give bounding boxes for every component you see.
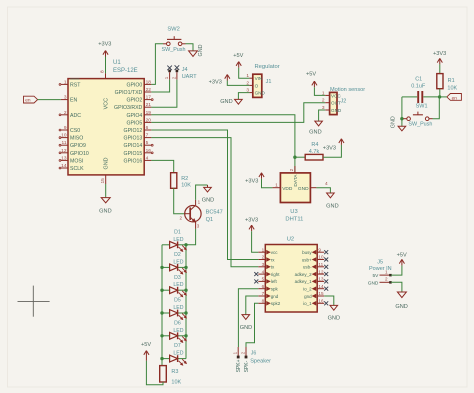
wire +3V3 to J1 pin 2 bbox=[227, 81, 249, 86]
svg-text:R3: R3 bbox=[171, 369, 178, 375]
svg-text:ESP-12E: ESP-12E bbox=[113, 68, 138, 74]
no-connect X on J4 pin 3 bbox=[167, 66, 172, 71]
wire en node to label bbox=[440, 96, 447, 98]
svg-text:GPIO5: GPIO5 bbox=[126, 120, 142, 126]
wire U2 spk to speaker bbox=[238, 289, 258, 347]
pin 12 GPIO10 of U1 bbox=[59, 148, 89, 157]
svg-text:+5V: +5V bbox=[141, 342, 151, 348]
power +5V at J1 bbox=[233, 53, 243, 67]
power +5V at J2 bbox=[306, 71, 317, 87]
svg-text:Motion sensor: Motion sensor bbox=[330, 87, 365, 93]
svg-text:adkey_2: adkey_2 bbox=[295, 272, 313, 277]
svg-text:R1: R1 bbox=[448, 78, 455, 84]
svg-text:10: 10 bbox=[61, 133, 67, 139]
pin 3 tx of U2 bbox=[258, 262, 275, 270]
pin 6 GPIO12 of U1 bbox=[124, 125, 152, 134]
U1 reference label bbox=[113, 60, 138, 74]
junction right bus at D2 bbox=[184, 266, 187, 269]
no-connect X on J4 pin 4 bbox=[175, 65, 180, 70]
wire U2 spk2 to speaker bbox=[246, 303, 258, 347]
pin 16 io_1 of U2 bbox=[303, 299, 324, 307]
svg-text:GPIO14: GPIO14 bbox=[124, 143, 143, 149]
svg-text:J5: J5 bbox=[377, 259, 383, 265]
svg-text:R4: R4 bbox=[311, 142, 318, 148]
svg-text:DHT11: DHT11 bbox=[285, 217, 303, 223]
svg-text:4: 4 bbox=[262, 269, 265, 274]
pin 13 adkey_1 of U2 bbox=[295, 277, 325, 285]
svg-text:17: 17 bbox=[146, 95, 152, 101]
svg-text:LED: LED bbox=[173, 351, 183, 357]
svg-text:GND: GND bbox=[198, 44, 204, 56]
wire J1 pin 3 to ground bbox=[238, 93, 249, 100]
svg-text:EN: EN bbox=[70, 98, 77, 104]
wire +3V3 to R1 bbox=[439, 64, 441, 73]
junction left bus at D2 bbox=[160, 266, 163, 269]
LED D5 bbox=[162, 298, 186, 320]
wire +5V to J2 pin 1 bbox=[314, 87, 325, 95]
junction right bus at D5 bbox=[184, 311, 187, 314]
pin 3 EN of U1 bbox=[61, 95, 78, 104]
no-connect X on U2 pin 10 bbox=[324, 258, 328, 262]
svg-text:spk: spk bbox=[271, 287, 279, 292]
svg-text:spk2: spk2 bbox=[271, 301, 281, 306]
wire R2 to Q1 base bbox=[174, 188, 185, 213]
svg-text:14: 14 bbox=[61, 163, 67, 169]
svg-text:5V: 5V bbox=[373, 273, 380, 279]
svg-text:11: 11 bbox=[318, 262, 323, 267]
svg-text:GPIO9: GPIO9 bbox=[70, 143, 86, 149]
wire J5 5V to +5V bbox=[391, 265, 402, 275]
pin 15 gnd of U2 bbox=[304, 291, 324, 299]
power +3V3 at R4 bbox=[323, 139, 344, 152]
resistor R2 bbox=[171, 173, 192, 189]
pin 1 5V of J5 bbox=[373, 269, 392, 279]
pin 7 GPIO13 of U1 bbox=[124, 133, 152, 142]
power +5V at J5 bbox=[397, 252, 407, 265]
pin 5 left of U2 bbox=[258, 277, 277, 285]
wire en label to EN pin bbox=[38, 99, 61, 101]
wire C1 left bbox=[402, 96, 417, 98]
svg-text:5: 5 bbox=[262, 277, 265, 282]
svg-text:1: 1 bbox=[262, 247, 265, 252]
pin 3 GND of J2 bbox=[322, 105, 342, 113]
ground at U2 gnd left bbox=[240, 315, 252, 332]
svg-text:R2: R2 bbox=[181, 176, 188, 182]
svg-text:Q1: Q1 bbox=[206, 217, 213, 223]
pin 19 GPIO4 of U1 bbox=[126, 110, 151, 119]
ground at J5 bbox=[395, 292, 407, 310]
svg-text:MOSI: MOSI bbox=[70, 158, 83, 164]
resistor R3 bbox=[160, 366, 182, 386]
wire SW2 right to ground bbox=[186, 44, 194, 51]
global label en at R1 bbox=[447, 94, 462, 102]
no-connect X on U2 pin 11 bbox=[324, 265, 328, 269]
switch SW1 SW_Push bbox=[403, 104, 432, 128]
svg-text:GND: GND bbox=[255, 91, 266, 96]
svg-text:MISO: MISO bbox=[70, 136, 83, 142]
svg-text:1: 1 bbox=[233, 351, 238, 354]
svg-text:GND: GND bbox=[99, 209, 111, 215]
svg-text:10K: 10K bbox=[447, 85, 457, 91]
svg-text:GND: GND bbox=[395, 304, 407, 310]
svg-text:GPIO15: GPIO15 bbox=[124, 151, 143, 157]
wire J4 pin2 to GPIO3/RXD bbox=[151, 80, 177, 108]
svg-text:GPIO3/RXD: GPIO3/RXD bbox=[114, 105, 143, 111]
sensor U3 DHT11 body bbox=[280, 173, 310, 223]
svg-text:ADC: ADC bbox=[70, 113, 81, 119]
svg-text:Regulator: Regulator bbox=[255, 64, 280, 70]
svg-text:U1: U1 bbox=[113, 60, 121, 66]
svg-text:3: 3 bbox=[262, 262, 265, 267]
svg-text:J2: J2 bbox=[341, 98, 347, 104]
svg-text:9: 9 bbox=[64, 125, 67, 131]
pin 10 usb+ of U2 bbox=[302, 255, 324, 263]
wire J2 OUT to GPIO5 bbox=[151, 103, 325, 123]
power +3V3 at J1 pin 2 bbox=[209, 75, 230, 86]
svg-text:GND: GND bbox=[240, 325, 252, 331]
pin 2 of J1 bbox=[246, 80, 258, 88]
svg-text:1: 1 bbox=[246, 73, 249, 79]
svg-text:15: 15 bbox=[318, 291, 324, 296]
svg-text:GND: GND bbox=[368, 281, 379, 287]
svg-text:en: en bbox=[25, 99, 31, 104]
svg-text:vcc: vcc bbox=[271, 250, 279, 255]
svg-text:U2: U2 bbox=[287, 236, 294, 242]
wire SW2 left to GPIO0 bbox=[151, 44, 163, 85]
svg-text:LED: LED bbox=[173, 237, 183, 243]
svg-text:2: 2 bbox=[171, 76, 176, 79]
svg-text:8: 8 bbox=[100, 70, 106, 73]
pin 1 VCC of J2 bbox=[322, 90, 341, 98]
svg-text:D1: D1 bbox=[174, 229, 181, 235]
svg-text:GND: GND bbox=[104, 157, 110, 169]
power +3V3 at U2 vcc bbox=[245, 217, 258, 231]
wire U1 pin15 to ground bbox=[105, 184, 107, 197]
wire Q1 collector to ground bbox=[196, 185, 208, 200]
node DATA junction bbox=[293, 156, 296, 159]
pin 2 ADC of U1 bbox=[59, 110, 81, 119]
svg-text:GPIO10: GPIO10 bbox=[70, 151, 89, 157]
pin 13 MOSI of U1 bbox=[59, 155, 83, 164]
pin 22 GPIO1/TXD of U1 bbox=[115, 87, 152, 96]
svg-text:12: 12 bbox=[61, 148, 67, 154]
svg-text:7: 7 bbox=[146, 133, 149, 139]
svg-text:DATA: DATA bbox=[293, 174, 299, 187]
svg-text:SW2: SW2 bbox=[167, 26, 180, 32]
svg-text:12: 12 bbox=[318, 269, 324, 274]
wire SW1 right to en node bbox=[433, 97, 440, 119]
svg-text:+3V3: +3V3 bbox=[323, 145, 336, 151]
svg-text:J4: J4 bbox=[182, 67, 188, 73]
wire +5V to J1 pin 1 bbox=[239, 68, 250, 79]
no-connect X on U2 pin 12 bbox=[324, 272, 328, 276]
pin 16 GPIO15 of U1 bbox=[124, 148, 154, 157]
svg-text:GND: GND bbox=[202, 198, 214, 204]
wire GPIO4 to DHT11 DATA node bbox=[151, 115, 295, 173]
svg-text:Power IN: Power IN bbox=[369, 266, 392, 272]
svg-text:GND: GND bbox=[298, 186, 309, 192]
svg-text:J1: J1 bbox=[266, 79, 272, 85]
svg-text:+3V3: +3V3 bbox=[245, 217, 258, 223]
pin 21 GPIO3/RXD of U1 bbox=[114, 102, 151, 111]
pin 15 GND of U1 bbox=[100, 157, 109, 184]
svg-text:1: 1 bbox=[385, 269, 388, 274]
svg-text:19: 19 bbox=[146, 110, 152, 116]
ground at J1 bbox=[220, 99, 242, 105]
connector J6 pin 1 SPK+ bbox=[233, 347, 243, 372]
pin 17 GPIO2 of U1 bbox=[126, 95, 153, 104]
switch SW2 SW_Push bbox=[162, 26, 186, 53]
svg-text:+5V: +5V bbox=[397, 252, 407, 258]
wire LED right bus bbox=[185, 245, 187, 359]
junction left bus at D7 bbox=[160, 357, 163, 360]
LED D1 bbox=[162, 229, 186, 251]
ground at Q1 collector bbox=[202, 185, 214, 204]
LED D3 bbox=[162, 275, 186, 297]
svg-text:D3: D3 bbox=[174, 275, 181, 281]
svg-text:OUT: OUT bbox=[331, 101, 341, 106]
svg-text:4: 4 bbox=[325, 181, 328, 187]
pin 9 CS0 of U1 bbox=[59, 125, 80, 134]
svg-text:io_1: io_1 bbox=[303, 301, 312, 306]
no-connect X on U2 pin 5 bbox=[254, 279, 258, 283]
svg-text:BC547: BC547 bbox=[206, 210, 223, 216]
svg-text:CS0: CS0 bbox=[70, 128, 80, 134]
J4 reference and value bbox=[182, 67, 198, 80]
op-amp U1 ESP-12E body bbox=[68, 79, 144, 175]
svg-text:RST: RST bbox=[70, 82, 81, 88]
svg-text:usb-: usb- bbox=[303, 265, 312, 270]
wire +3V3 to U3 VDD bbox=[262, 179, 273, 188]
svg-text:9: 9 bbox=[318, 247, 321, 252]
svg-text:GPIO4: GPIO4 bbox=[126, 113, 142, 119]
svg-text:right: right bbox=[271, 272, 281, 277]
LED D7 bbox=[162, 343, 186, 365]
pin 7 gnd of U2 bbox=[258, 291, 279, 299]
connector J5 Power IN bbox=[369, 259, 392, 272]
svg-text:1: 1 bbox=[322, 90, 325, 96]
connector J2 Motion sensor body bbox=[330, 87, 366, 114]
pin 3 GND of J1 bbox=[246, 88, 265, 96]
junction left bus at D6 bbox=[160, 334, 163, 337]
svg-text:GND: GND bbox=[220, 99, 232, 105]
wire R3 to +5V bbox=[146, 361, 163, 385]
svg-text:5: 5 bbox=[146, 140, 149, 146]
svg-text:21: 21 bbox=[146, 102, 152, 108]
capacitor C1 bbox=[411, 76, 426, 103]
LED D2 bbox=[162, 252, 186, 274]
svg-text:SW_Push: SW_Push bbox=[408, 121, 432, 127]
pin 14 SCLK of U1 bbox=[59, 163, 84, 172]
pin 20 GPIO5 of U1 bbox=[126, 117, 151, 126]
svg-text:20: 20 bbox=[146, 117, 152, 123]
svg-text:GND: GND bbox=[328, 316, 340, 322]
wire LED left bus bbox=[161, 245, 163, 366]
svg-text:2: 2 bbox=[385, 277, 388, 282]
svg-text:2: 2 bbox=[64, 110, 67, 116]
no-connect X on U2 pin 4 bbox=[254, 272, 258, 276]
pin 4 GPIO16 of U1 bbox=[124, 155, 152, 164]
pin 8 spk2 of U2 bbox=[258, 299, 281, 307]
pin 2 DATA of U3 bbox=[289, 166, 299, 187]
pin 1 VIN of J1 bbox=[246, 73, 262, 81]
wire J4 pin1 to GPIO1/TXD bbox=[151, 80, 169, 92]
svg-text:13: 13 bbox=[61, 155, 67, 161]
transistor Q1 BC547 bbox=[179, 199, 222, 229]
module U2 body bbox=[265, 236, 317, 312]
pin 2 rx of U2 bbox=[258, 255, 275, 263]
svg-text:LED: LED bbox=[173, 282, 183, 288]
svg-text:Speaker: Speaker bbox=[250, 359, 271, 365]
ground at J2 bbox=[309, 121, 322, 136]
no-connect X on U2 pin 9 bbox=[324, 250, 328, 254]
no-connect X on U2 pin 16 bbox=[324, 301, 328, 305]
junction left bus at D3 bbox=[160, 289, 163, 292]
svg-text:15: 15 bbox=[100, 178, 106, 184]
svg-text:+5V: +5V bbox=[306, 71, 316, 77]
pin 1 VDD of U3 bbox=[272, 182, 292, 191]
power +3V3 at R1 bbox=[433, 51, 446, 64]
pin 1 RST of U1 bbox=[59, 79, 81, 89]
ground at U3 bbox=[326, 193, 338, 210]
svg-text:+3V3: +3V3 bbox=[245, 178, 258, 184]
junction right bus at D1 bbox=[184, 243, 187, 246]
no-connect X on U2 pin 13 bbox=[324, 279, 328, 283]
svg-text:gnd: gnd bbox=[304, 294, 312, 299]
node en junction bbox=[438, 95, 441, 98]
svg-text:+3V3: +3V3 bbox=[98, 42, 111, 48]
ground at SW2 bbox=[189, 44, 204, 56]
wire VCC to U1 pin 8 bbox=[105, 57, 107, 74]
svg-text:busy: busy bbox=[302, 250, 312, 255]
svg-text:D5: D5 bbox=[174, 298, 181, 304]
junction right bus at D6 bbox=[184, 334, 187, 337]
svg-text:GPIO13: GPIO13 bbox=[124, 136, 143, 142]
pin 10 MISO of U1 bbox=[59, 133, 83, 142]
svg-text:VDD: VDD bbox=[282, 186, 293, 192]
svg-text:UART: UART bbox=[182, 74, 198, 80]
svg-text:gnd: gnd bbox=[271, 294, 279, 299]
resistor R4 bbox=[295, 142, 323, 160]
wire Q1 emitter to LED bus bbox=[186, 229, 196, 245]
wire C1 right to en node bbox=[423, 96, 440, 98]
svg-text:7: 7 bbox=[262, 291, 265, 296]
wire GPIO16 to R2 bbox=[151, 160, 173, 172]
global label en at U1 EN bbox=[24, 96, 38, 103]
svg-text:io_2: io_2 bbox=[303, 287, 312, 292]
svg-text:U3: U3 bbox=[290, 209, 297, 215]
connector J6 pin 2 SPK- bbox=[240, 347, 250, 372]
svg-text:1: 1 bbox=[275, 182, 278, 188]
svg-text:10: 10 bbox=[318, 255, 324, 260]
svg-text:+5V: +5V bbox=[233, 53, 243, 59]
wire U3 GND to ground bbox=[316, 188, 330, 193]
svg-text:GPIO0: GPIO0 bbox=[126, 82, 142, 88]
svg-text:4: 4 bbox=[146, 155, 149, 161]
wire +3V3 to U2 pin 1 bbox=[252, 231, 259, 252]
power +5V at R3 bbox=[141, 342, 151, 361]
svg-text:2: 2 bbox=[262, 255, 265, 260]
svg-text:left: left bbox=[271, 279, 278, 284]
ground at SW1 bbox=[391, 116, 406, 131]
svg-text:VIN: VIN bbox=[255, 76, 263, 81]
svg-text:2: 2 bbox=[289, 168, 295, 171]
ground at U1 pin 15 bbox=[99, 198, 111, 215]
wire C1 to SW1 left bbox=[401, 97, 403, 119]
svg-text:GPIO2: GPIO2 bbox=[126, 98, 142, 104]
svg-text:+3V3: +3V3 bbox=[209, 79, 222, 85]
connector J4 UART pin 1 bbox=[164, 70, 171, 80]
wire U2 gnd right to ground bbox=[324, 296, 334, 305]
svg-text:6: 6 bbox=[262, 284, 265, 289]
svg-text:1: 1 bbox=[164, 76, 169, 79]
svg-text:2: 2 bbox=[240, 351, 245, 354]
wire J5 GND to ground bbox=[391, 282, 402, 292]
wire LED bus to R3 bbox=[162, 359, 163, 366]
svg-text:usb+: usb+ bbox=[302, 257, 312, 262]
svg-text:GND: GND bbox=[326, 204, 338, 210]
LED D6 bbox=[162, 320, 186, 342]
pin 11 usb- of U2 bbox=[303, 262, 324, 270]
pin 18 GPIO0 of U1 bbox=[126, 79, 151, 88]
svg-text:+3V3: +3V3 bbox=[433, 51, 446, 57]
wire R4 to +3V3 bbox=[323, 145, 341, 157]
pin 9 busy of U2 bbox=[302, 247, 324, 255]
svg-text:18: 18 bbox=[146, 79, 152, 85]
svg-text:10K: 10K bbox=[181, 183, 191, 189]
pin 6 spk of U2 bbox=[258, 284, 278, 292]
resistor R1 bbox=[437, 74, 458, 92]
svg-text:en: en bbox=[452, 96, 458, 101]
svg-text:D7: D7 bbox=[174, 343, 181, 349]
svg-text:VCC: VCC bbox=[103, 98, 109, 109]
svg-text:GPIO1/TXD: GPIO1/TXD bbox=[115, 90, 143, 96]
svg-text:0.1uF: 0.1uF bbox=[411, 84, 426, 90]
pin 14 io_2 of U2 bbox=[303, 284, 324, 292]
svg-text:16: 16 bbox=[146, 148, 152, 154]
svg-text:10K: 10K bbox=[171, 379, 181, 385]
svg-text:11: 11 bbox=[62, 140, 67, 146]
wire J2 pin 3 to ground bbox=[319, 110, 326, 121]
pin 2 GND of J5 bbox=[368, 277, 392, 287]
pin 4 right of U2 bbox=[258, 269, 280, 277]
pin 5 GPIO14 of U1 bbox=[124, 140, 154, 149]
junction right bus at D3 bbox=[184, 289, 187, 292]
svg-text:D6: D6 bbox=[174, 320, 181, 326]
J6 reference and value bbox=[250, 350, 271, 364]
svg-text:SPK+: SPK+ bbox=[236, 359, 242, 372]
svg-text:O: O bbox=[255, 83, 259, 88]
svg-text:GPIO12: GPIO12 bbox=[124, 128, 143, 134]
no-connect X on U2 pin 14 bbox=[324, 287, 328, 291]
wire GPIO12 to U2 rx bbox=[151, 130, 258, 260]
svg-text:LED: LED bbox=[173, 328, 183, 334]
svg-text:SCLK: SCLK bbox=[70, 166, 84, 172]
svg-text:14: 14 bbox=[318, 284, 324, 289]
svg-text:GND: GND bbox=[331, 108, 342, 113]
svg-text:LED: LED bbox=[173, 305, 183, 311]
svg-text:3: 3 bbox=[64, 95, 67, 101]
origin crosshair bbox=[18, 286, 50, 317]
pin 8 VCC of U1 bbox=[100, 70, 110, 109]
svg-text:J6: J6 bbox=[251, 350, 257, 356]
wire R1 to en node bbox=[439, 89, 441, 97]
svg-text:SPK-: SPK- bbox=[244, 360, 250, 372]
svg-text:GND: GND bbox=[309, 130, 321, 136]
svg-text:SW1: SW1 bbox=[416, 104, 428, 110]
svg-text:13: 13 bbox=[318, 277, 324, 282]
svg-text:SW_Push: SW_Push bbox=[162, 47, 186, 53]
